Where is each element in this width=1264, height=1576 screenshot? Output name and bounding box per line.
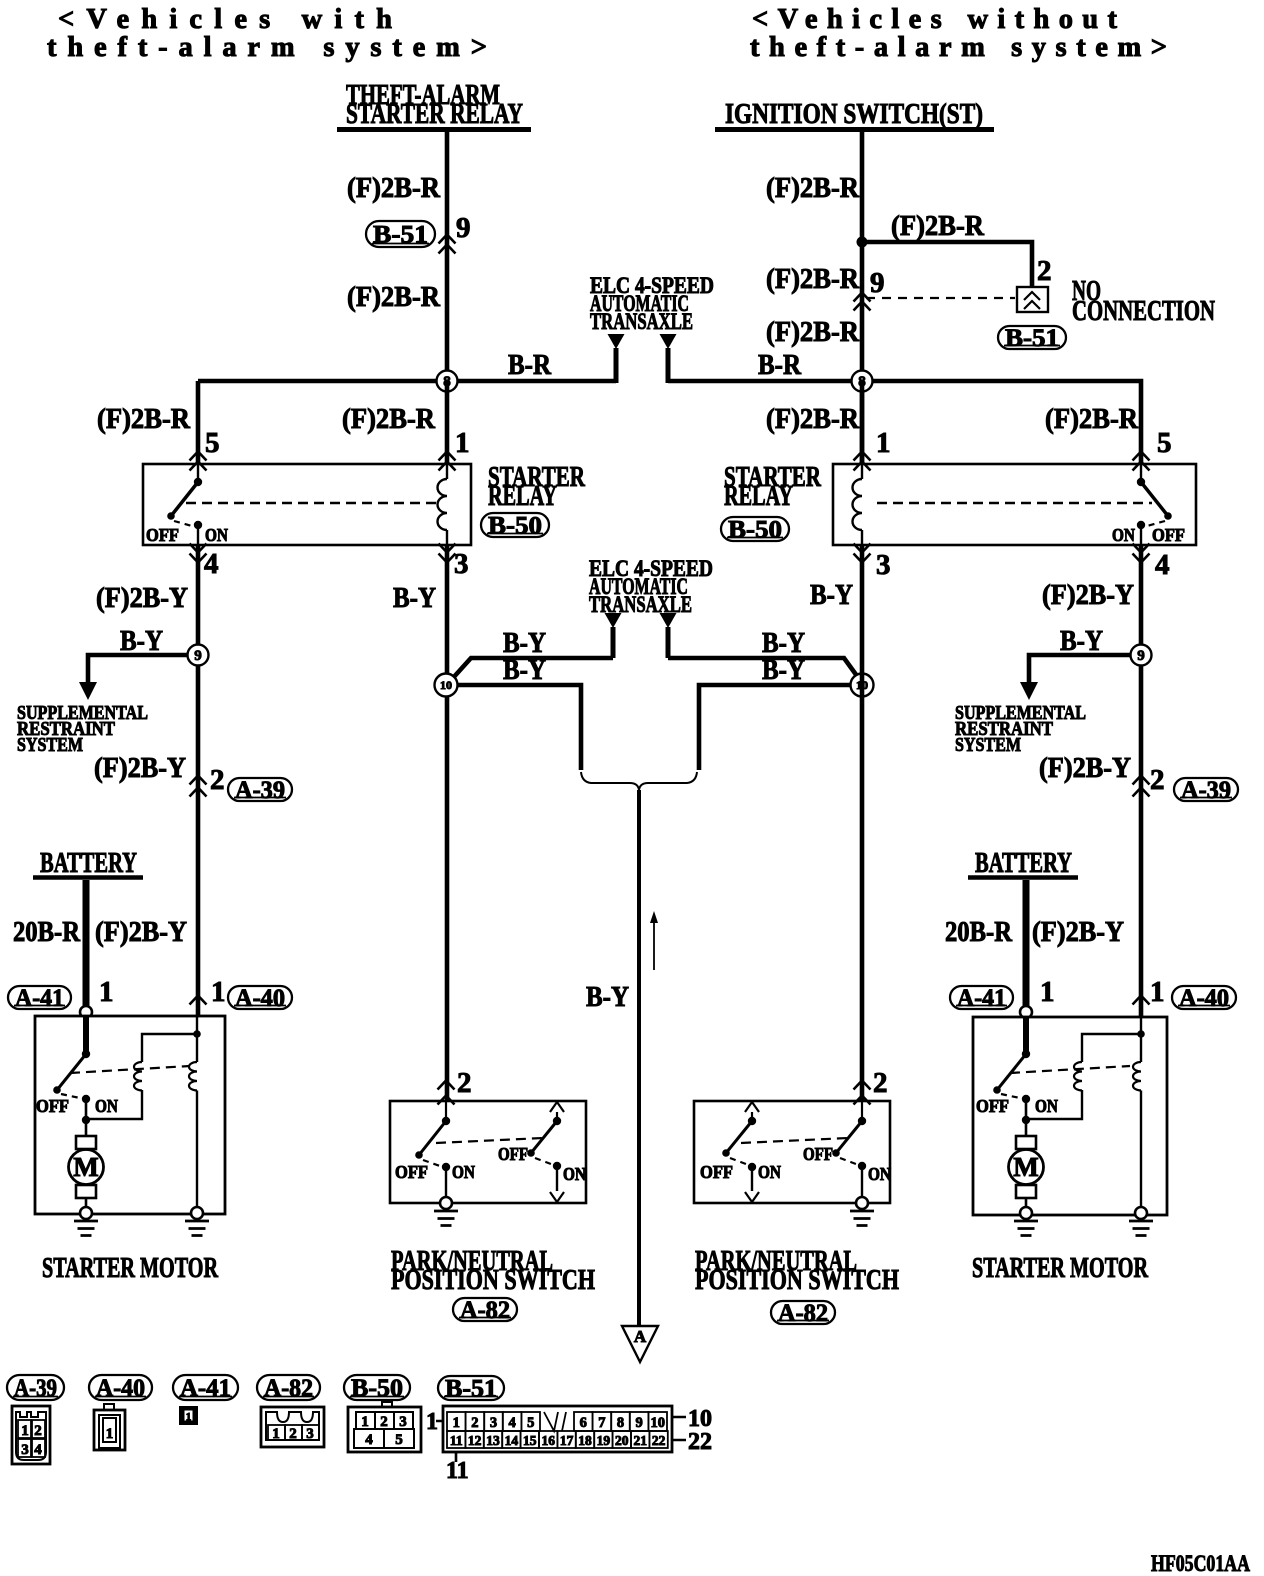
junction dot to NC branch	[857, 237, 868, 248]
label pin 1 at A-40 (right)	[1150, 976, 1165, 1008]
label pin 5 (right relay)	[1157, 427, 1172, 459]
wire: ignition switch vertical	[860, 132, 865, 464]
svg-text:5: 5	[527, 1415, 534, 1431]
svg-text:4: 4	[204, 548, 219, 580]
wire: theft-alarm relay output (F)2B-R vertical	[445, 132, 450, 381]
pin 4 exit chevrons	[190, 544, 207, 563]
connector A-40 crossing (left)	[190, 996, 207, 1025]
svg-text:(F)2B-R: (F)2B-R	[891, 210, 985, 242]
ground symbol motor (right)	[1014, 1221, 1038, 1236]
label (F)2B-R mid (right)	[766, 263, 860, 295]
svg-text:1: 1	[361, 1414, 369, 1430]
svg-text:(F)2B-R: (F)2B-R	[342, 403, 436, 435]
label pin 9	[456, 212, 471, 244]
label PARK/NEUTRAL POSITION SWITCH (left)	[391, 1245, 595, 1296]
label (F)2B-Y battery-side (right)	[1032, 916, 1124, 948]
svg-text:A-40: A-40	[1179, 985, 1229, 1012]
svg-text:10: 10	[650, 1415, 665, 1431]
wire: pin4 to junction 9 (right)	[1139, 545, 1144, 1016]
ground circle (right PN)	[856, 1197, 868, 1209]
label STARTER RELAY (right)	[724, 461, 822, 512]
connector A-39 crossing (left)	[190, 776, 207, 797]
svg-text:<Vehicles with: <Vehicles with	[58, 4, 392, 35]
connector A-40 crossing (right)	[1133, 996, 1150, 1025]
svg-text:1: 1	[455, 427, 470, 459]
svg-text:7: 7	[598, 1415, 605, 1431]
wire: SRS branch (right)	[1029, 655, 1141, 684]
svg-text:A: A	[634, 1327, 647, 1346]
label pin 1	[455, 427, 470, 459]
ground symbol motor (left)	[74, 1221, 98, 1236]
svg-text:OFF: OFF	[146, 525, 179, 545]
svg-text:A-41: A-41	[957, 985, 1006, 1012]
relay switch (right)	[1112, 464, 1185, 545]
pin 2 chevrons (left PN)	[438, 1081, 455, 1105]
wire: left relay pin1 drop	[445, 381, 450, 464]
label B-R (right)	[758, 349, 802, 381]
legend ref B-50	[344, 1375, 410, 1402]
wire: NC branch	[862, 242, 1032, 287]
svg-text:2: 2	[1037, 255, 1052, 287]
svg-text:SYSTEM: SYSTEM	[17, 735, 83, 756]
svg-text:(F)2B-R: (F)2B-R	[347, 172, 441, 204]
svg-text:2: 2	[34, 1423, 42, 1439]
svg-text:(F)2B-R: (F)2B-R	[766, 403, 860, 435]
ground circle under motor (right)	[1020, 1207, 1032, 1219]
svg-text:2: 2	[471, 1415, 478, 1431]
label pin 4	[204, 548, 219, 580]
svg-text:1: 1	[272, 1426, 280, 1442]
svg-text:9: 9	[870, 267, 885, 299]
label B-Y below pin3 (right)	[810, 579, 853, 611]
starter switch (left)	[36, 1050, 118, 1136]
svg-text:OFF: OFF	[976, 1096, 1009, 1116]
wire: common B-Y to A (center)	[637, 790, 641, 1326]
junction circle 9 (left)	[188, 645, 209, 666]
relay box: starter relay (right) B-50	[833, 464, 1196, 545]
svg-text:TRANSAXLE: TRANSAXLE	[589, 592, 692, 617]
label (F)2B-Y below pin4 (right)	[1042, 579, 1134, 611]
starter motor box (left)	[35, 1016, 225, 1214]
svg-text:A-82: A-82	[778, 1300, 828, 1327]
starter switch feed (left)	[83, 1016, 89, 1054]
svg-text:B-Y: B-Y	[503, 654, 546, 686]
starter dashed link (left)	[70, 1066, 190, 1073]
svg-text:HF05C01AA: HF05C01AA	[1151, 1551, 1250, 1576]
connector ref A-39 (left)	[228, 777, 292, 804]
svg-text:9: 9	[194, 648, 202, 664]
ground circle (left PN)	[440, 1197, 452, 1209]
svg-text:RELAY: RELAY	[724, 480, 793, 512]
drawing code HF05C01AA	[1151, 1551, 1250, 1576]
label (F)2B-Y above A-39 (right)	[1039, 752, 1131, 784]
label STARTER MOTOR (left)	[42, 1252, 219, 1284]
svg-text:TRANSAXLE: TRANSAXLE	[590, 309, 693, 334]
svg-text:2: 2	[289, 1426, 297, 1442]
wire: B-R horizontal to ELC stub (left)	[198, 379, 616, 384]
svg-text:4: 4	[34, 1442, 42, 1458]
svg-text:B-50: B-50	[728, 516, 782, 543]
connector ref A-41 (left)	[8, 985, 71, 1012]
svg-text:2: 2	[457, 1067, 472, 1099]
brace joining ELC wires	[581, 772, 697, 790]
node 8 junction (left)	[0, 0, 1, 1]
wire: ELC stub up (right)	[666, 348, 671, 383]
svg-text:6: 6	[580, 1415, 587, 1431]
label SUPPLEMENTAL RESTRAINT SYSTEM (right)	[955, 703, 1086, 756]
svg-text:2: 2	[873, 1067, 888, 1099]
label STARTER RELAY (left)	[488, 461, 586, 512]
wire: ELC mid stub (right)	[666, 627, 671, 658]
relay box: starter relay (left) B-50	[143, 464, 471, 545]
svg-text:13: 13	[486, 1433, 500, 1448]
wire: ELC mid stub (left)	[611, 627, 616, 658]
svg-text:B-Y: B-Y	[1060, 625, 1103, 657]
label pin 2 (left A-39)	[210, 764, 225, 796]
ground symbol right leg (left box)	[185, 1221, 209, 1236]
label NO CONNECTION	[1072, 275, 1215, 327]
starter switch feed (right)	[1023, 1017, 1029, 1054]
relay internal dashed link (left)	[186, 502, 436, 504]
wire: right relay pin1 drop	[860, 381, 865, 464]
connector B-51 pin 9 crossing	[439, 235, 456, 254]
svg-text:3: 3	[306, 1426, 314, 1442]
label pin 2 NC	[1037, 255, 1052, 287]
label (F)2B-R on NC branch	[891, 210, 985, 242]
flow arrow up (center)	[650, 911, 658, 970]
junction circle 10 (right)	[851, 674, 874, 697]
label B-Y lower (right)	[762, 654, 805, 686]
svg-text:3: 3	[21, 1442, 29, 1458]
legend connector B-51 drawing	[426, 1406, 712, 1484]
svg-text:(F)2B-R: (F)2B-R	[97, 403, 191, 435]
wire: upper B-Y to ELC (left)	[452, 658, 613, 679]
park/neutral position switch box (left)	[390, 1101, 586, 1203]
svg-text:A-39: A-39	[235, 777, 285, 804]
label STARTER MOTOR (right)	[972, 1252, 1149, 1284]
label pin 1 at A-41 (right)	[1040, 976, 1055, 1008]
label pin 9 (right)	[870, 267, 885, 299]
svg-text:(F)2B-R: (F)2B-R	[347, 281, 441, 313]
label pin 3	[454, 548, 469, 580]
svg-text:CONNECTION: CONNECTION	[1072, 295, 1215, 327]
svg-text:POSITION SWITCH: POSITION SWITCH	[695, 1264, 899, 1296]
svg-text:8: 8	[617, 1415, 624, 1431]
svg-text:B-Y: B-Y	[120, 625, 163, 657]
component label: THEFT-ALARM STARTER RELAY	[337, 79, 531, 130]
svg-text:20B-R: 20B-R	[13, 916, 81, 948]
ground circle right leg (left box)	[191, 1207, 203, 1219]
label pin 1 at A-40 (left)	[211, 976, 226, 1008]
label B-Y below pin3	[393, 582, 436, 614]
label pin 2 (right PN)	[873, 1067, 888, 1099]
PN dashed link (right box)	[741, 1138, 848, 1143]
arrow to ELC (mid-left)	[605, 613, 622, 628]
svg-text:A-40: A-40	[235, 985, 285, 1012]
svg-text:B-51: B-51	[445, 1375, 497, 1402]
wire drop into left park/neutral	[0, 0, 1, 1]
label B-Y upper (left)	[503, 627, 546, 659]
pin 5 entry chevrons	[190, 452, 207, 471]
label pin 2 (right A-39)	[1150, 764, 1165, 796]
wire: pin3 down to park/neutral	[445, 545, 450, 1101]
svg-text:18: 18	[578, 1433, 592, 1448]
connector ref B-51	[366, 221, 435, 248]
svg-text:2: 2	[1150, 764, 1165, 796]
svg-text:5: 5	[205, 427, 220, 459]
connector ref A-40 (right)	[1172, 985, 1236, 1012]
legend ref A-82	[257, 1375, 320, 1402]
svg-text:1: 1	[99, 976, 114, 1008]
svg-text:A-40: A-40	[96, 1375, 145, 1402]
svg-text:M: M	[73, 1152, 98, 1182]
svg-text:4: 4	[365, 1432, 373, 1448]
svg-text:11: 11	[450, 1433, 463, 1448]
label ELC 4-SPEED AUTOMATIC TRANSAXLE (top)	[590, 273, 714, 334]
wire: battery 20B-R (left)	[83, 880, 90, 1007]
starter motor M (left)	[69, 1136, 104, 1208]
starter hold-in coil (right)	[1133, 1017, 1141, 1208]
label (F)2B-R lower-left	[347, 281, 441, 313]
svg-text:(F)2B-R: (F)2B-R	[766, 316, 860, 348]
svg-text:A-41: A-41	[180, 1375, 231, 1402]
svg-text:STARTER MOTOR: STARTER MOTOR	[42, 1252, 219, 1284]
svg-text:(F)2B-R: (F)2B-R	[766, 172, 860, 204]
junction circle 8 (left)	[437, 371, 458, 392]
label (F)2B-R at pin5	[97, 403, 191, 435]
svg-text:10: 10	[440, 678, 452, 692]
label pin 4 (right)	[1155, 549, 1170, 581]
starter motor M (right)	[1009, 1136, 1044, 1208]
connector A-41 open circle (right)	[1020, 1006, 1032, 1018]
label B-Y upper (right)	[762, 627, 805, 659]
svg-text:theft-alarm system>: theft-alarm system>	[750, 32, 1167, 63]
label (F)2B-R at pin5 (right)	[1045, 403, 1139, 435]
wire: SRS branch (left)	[88, 655, 198, 684]
legend connector A-82 drawing	[261, 1407, 324, 1447]
ground symbol (left PN)	[434, 1211, 458, 1226]
svg-text:B-R: B-R	[508, 349, 552, 381]
svg-text:OFF: OFF	[36, 1096, 69, 1116]
svg-text:(F)2B-Y: (F)2B-Y	[95, 916, 187, 948]
svg-text:(F)2B-Y: (F)2B-Y	[1032, 916, 1124, 948]
legend ref A-41	[173, 1375, 238, 1402]
svg-text:20: 20	[615, 1433, 629, 1448]
label pin 3 (right)	[876, 549, 891, 581]
svg-text:9: 9	[1137, 648, 1145, 664]
connector A-41 open circle (left)	[80, 1006, 92, 1018]
svg-text:3: 3	[490, 1415, 497, 1431]
starter pull-in coil branch (left)	[86, 1030, 201, 1119]
svg-text:M: M	[1013, 1152, 1038, 1182]
svg-text:BATTERY: BATTERY	[975, 847, 1072, 879]
svg-text:3: 3	[399, 1414, 407, 1430]
label pin 5	[205, 427, 220, 459]
pin 1 chevrons (right relay)	[854, 452, 871, 471]
svg-text:15: 15	[523, 1433, 537, 1448]
svg-text:STARTER RELAY: STARTER RELAY	[346, 98, 523, 130]
label pin 2 (left PN)	[457, 1067, 472, 1099]
label B-R (left)	[508, 349, 552, 381]
arrow to SRS (right)	[1020, 682, 1038, 700]
label 20B-R (left)	[13, 916, 81, 948]
svg-text:B-50: B-50	[488, 512, 542, 539]
svg-text:ON: ON	[868, 1164, 891, 1184]
relay switch (left): contact, blade, OFF/ON	[146, 464, 228, 545]
wire: upper B-Y to ELC (right)	[668, 658, 857, 676]
svg-text:2: 2	[210, 764, 225, 796]
wire: lower B-Y loop (left)	[446, 685, 581, 770]
svg-text:3: 3	[454, 548, 469, 580]
title: vehicles without theft-alarm system	[750, 4, 1167, 63]
svg-text:4: 4	[1155, 549, 1170, 581]
label (F)2B-R upper-left	[347, 172, 441, 204]
svg-text:(F)2B-R: (F)2B-R	[766, 263, 860, 295]
connector ref A-41 (right)	[950, 985, 1013, 1012]
svg-text:1: 1	[106, 1426, 114, 1442]
relay coil (left)	[438, 464, 448, 545]
svg-text:21: 21	[633, 1433, 647, 1448]
arrow to ELC (mid-right)	[660, 613, 677, 628]
svg-text:A-39: A-39	[1181, 777, 1231, 804]
label PARK/NEUTRAL POSITION SWITCH (right)	[695, 1245, 899, 1296]
relay internal dashed link (right)	[877, 502, 1152, 504]
svg-text:OFF: OFF	[1152, 525, 1185, 545]
dashed tie to NC box	[866, 297, 1015, 299]
svg-text:(F)2B-Y: (F)2B-Y	[1039, 752, 1131, 784]
component label: IGNITION SWITCH(ST)	[715, 98, 994, 130]
connector ref A-82 (right)	[771, 1300, 835, 1327]
svg-text:4: 4	[508, 1415, 515, 1431]
wire: pin3 down to park/neutral (right)	[860, 545, 865, 1101]
svg-text:11: 11	[446, 1458, 469, 1484]
connector A-39 crossing (right)	[1133, 776, 1150, 797]
label B-Y (center)	[586, 981, 629, 1013]
svg-text:B-Y: B-Y	[393, 582, 436, 614]
pin 2 chevrons (right PN)	[854, 1081, 871, 1105]
wire: left relay pin5 drop	[196, 381, 201, 464]
svg-text:9: 9	[456, 212, 471, 244]
svg-text:1: 1	[876, 427, 891, 459]
legend connector A-41 drawing	[179, 1406, 198, 1425]
label (F)2B-R at pin1 (right)	[766, 403, 860, 435]
svg-text:B-Y: B-Y	[762, 654, 805, 686]
off-page arrow A (center)	[622, 1326, 658, 1362]
legend connector B-50 drawing	[348, 1402, 421, 1452]
svg-text:1: 1	[1040, 976, 1055, 1008]
svg-text:20B-R: 20B-R	[945, 916, 1013, 948]
svg-text:17: 17	[560, 1433, 574, 1448]
svg-text:1: 1	[453, 1415, 460, 1431]
wire: B-R horizontal (right)	[668, 381, 1141, 464]
svg-text:OFF: OFF	[700, 1162, 733, 1182]
svg-text:A-82: A-82	[264, 1375, 313, 1402]
starter hold-in coil (left)	[189, 1016, 197, 1208]
junction circle 9 (right)	[1131, 645, 1152, 666]
label B-Y on SRS branch (left)	[120, 625, 163, 657]
ground circle under motor (left)	[80, 1207, 92, 1219]
svg-text:<Vehicles without: <Vehicles without	[752, 4, 1118, 35]
component label: BATTERY (left)	[33, 847, 143, 879]
label SUPPLEMENTAL RESTRAINT SYSTEM (left)	[17, 703, 148, 756]
label (F)2B-Y battery-side (left)	[95, 916, 187, 948]
svg-text:1: 1	[186, 1411, 192, 1423]
label B-Y on SRS branch (right)	[1060, 625, 1103, 657]
PN switch 1 (left box)	[395, 1101, 475, 1198]
PN dashed link (left box)	[436, 1138, 543, 1143]
svg-text:theft-alarm system>: theft-alarm system>	[47, 32, 487, 63]
label (F)2B-Y above A-39 (left)	[94, 752, 186, 784]
svg-text:A-41: A-41	[15, 985, 64, 1012]
arrow to SRS (left)	[79, 682, 97, 700]
pin 3 exit chevrons (right)	[854, 544, 871, 563]
starter motor box (right)	[973, 1017, 1167, 1215]
PN switch 2 (right box)	[803, 1101, 891, 1198]
svg-text:ON: ON	[452, 1162, 475, 1182]
label pin 1 at A-41 (left)	[99, 976, 114, 1008]
label (F)2B-R (right top)	[766, 172, 860, 204]
label 20B-R (right)	[945, 916, 1013, 948]
svg-text:1: 1	[1150, 976, 1165, 1008]
park/neutral position switch box (right)	[694, 1101, 890, 1203]
svg-text:1: 1	[211, 976, 226, 1008]
connector ref B-50 (left)	[481, 512, 549, 539]
label (F)2B-Y below pin4	[96, 582, 188, 614]
pin 5 chevrons (right relay)	[1133, 452, 1150, 471]
connector ref A-40 (left)	[228, 985, 292, 1012]
label pin 1 (right relay)	[876, 427, 891, 459]
connector ref B-51 (right)	[998, 325, 1066, 352]
svg-text:(F)2B-Y: (F)2B-Y	[94, 752, 186, 784]
svg-text:1: 1	[21, 1423, 29, 1439]
legend ref A-40	[89, 1375, 152, 1402]
label (F)2B-R low (right)	[766, 316, 860, 348]
svg-text:OFF: OFF	[803, 1144, 833, 1164]
svg-text:A-82: A-82	[460, 1297, 510, 1324]
pin 4 exit chevrons (right)	[1133, 544, 1150, 563]
svg-text:ON: ON	[1112, 525, 1135, 545]
relay coil (right)	[853, 464, 863, 545]
svg-text:5: 5	[395, 1432, 403, 1448]
junction circle 8 (right)	[852, 371, 873, 392]
title: vehicles with theft-alarm system	[47, 4, 487, 63]
svg-text:BATTERY: BATTERY	[40, 847, 137, 879]
connector ref B-50 (right)	[721, 516, 789, 543]
wire: ELC stub up (left)	[614, 348, 619, 383]
starter switch (right)	[976, 1050, 1058, 1136]
no-connection box B-51	[1017, 287, 1048, 312]
svg-text:22: 22	[688, 1429, 712, 1455]
svg-text:12: 12	[468, 1433, 482, 1448]
PN switch 1 (right box)	[700, 1102, 781, 1202]
component label: BATTERY (right)	[968, 847, 1078, 879]
svg-text:19: 19	[597, 1433, 611, 1448]
legend connector A-40 drawing	[94, 1404, 125, 1450]
ground symbol right leg (right box)	[1129, 1221, 1153, 1236]
svg-text:14: 14	[505, 1433, 519, 1448]
svg-text:B-Y: B-Y	[586, 981, 629, 1013]
legend ref A-39	[7, 1375, 64, 1402]
junction circle 10 (left)	[435, 674, 458, 697]
label B-Y lower (left)	[503, 654, 546, 686]
connector ref A-82 (left)	[453, 1297, 517, 1324]
svg-text:SYSTEM: SYSTEM	[955, 735, 1021, 756]
svg-text:STARTER MOTOR: STARTER MOTOR	[972, 1252, 1149, 1284]
svg-text:A-39: A-39	[14, 1375, 57, 1402]
svg-text:1: 1	[426, 1409, 438, 1435]
svg-text:OFF: OFF	[498, 1144, 528, 1164]
wire: battery 20B-R (right)	[1023, 880, 1030, 1007]
